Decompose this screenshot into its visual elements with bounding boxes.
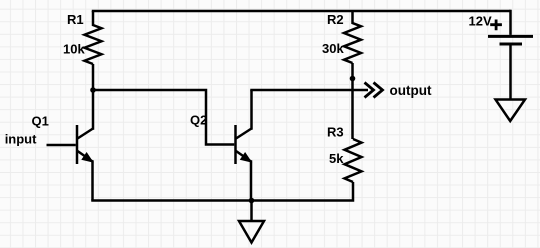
wire R1 bottom to Q1 collector — [92, 64, 95, 130]
ground bottom — [239, 201, 264, 243]
transistor Q1 — [77, 125, 93, 164]
wire input to Q1 base — [47, 144, 76, 147]
svg-text:30k: 30k — [322, 41, 344, 56]
battery 12V — [488, 10, 533, 99]
wire Q2 collector to output — [250, 89, 368, 92]
wire bottom rail — [91, 199, 351, 202]
battery plus sign — [490, 20, 502, 31]
svg-text:R1: R1 — [67, 12, 84, 27]
svg-text:5k: 5k — [329, 151, 344, 166]
wire Q2 emitter down — [250, 160, 253, 200]
svg-text:R3: R3 — [327, 124, 344, 139]
junction node R1/Q1 — [90, 87, 96, 93]
resistor R2 — [344, 11, 361, 63]
svg-text:12V: 12V — [469, 13, 492, 28]
svg-text:output: output — [390, 83, 432, 98]
ground battery — [496, 100, 526, 122]
wire Q2 collector up — [250, 90, 253, 130]
svg-text:Q1: Q1 — [32, 114, 49, 129]
transistor Q2 — [236, 125, 252, 164]
wire R3 bottom — [352, 182, 354, 201]
wire R2 to R3 — [351, 63, 354, 139]
output arrow — [365, 83, 383, 98]
resistor R1 — [85, 11, 102, 64]
svg-text:Q2: Q2 — [190, 113, 207, 128]
wire node A to Q2 base — [93, 90, 234, 145]
svg-text:R2: R2 — [327, 12, 344, 27]
junction node R2/output — [350, 76, 356, 82]
resistor R3 — [345, 139, 362, 182]
junction node bottom ground — [249, 198, 255, 204]
wire top rail — [92, 10, 511, 13]
svg-text:input: input — [5, 132, 37, 147]
svg-text:10k: 10k — [63, 42, 85, 57]
wire Q1 emitter down — [91, 160, 94, 200]
